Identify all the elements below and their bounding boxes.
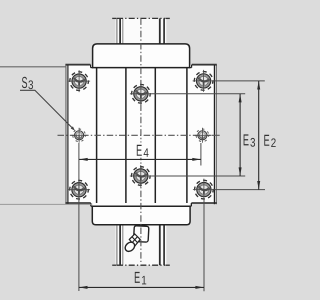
label E1 [135, 272, 146, 285]
label E2 [264, 135, 275, 147]
cap-wing notch top-right [189, 65, 191, 68]
extension line E4/E1 left [78, 143, 80, 291]
grease nipple [123, 226, 149, 254]
lube port hole right [195, 128, 210, 143]
rail break line top [112, 17, 170, 19]
end cap bottom [92, 206, 190, 225]
carriage body plate [66, 65, 216, 207]
cap-wing notch bottom-left [91, 203, 93, 206]
mounting hole bottom-center [130, 165, 152, 187]
horizontal centerline [58, 134, 214, 136]
body internal line 1 [96, 68, 98, 203]
extension line E4 right [200, 143, 202, 166]
lube port hole left S3 [72, 128, 87, 143]
label E3 [244, 134, 255, 146]
dimension E3 [239, 94, 242, 176]
body left edge double line [66, 65, 68, 205]
label E4 halo [136, 143, 151, 158]
rail edge lines bottom-left [117, 225, 123, 266]
margin line top left [0, 66, 67, 68]
label E4 [137, 145, 149, 157]
end cap top [93, 44, 190, 68]
S3 leader line [20, 90, 75, 130]
body right edge double line [214, 65, 216, 205]
body internal line 2 [125, 68, 127, 203]
wing top edge right stub [192, 64, 217, 65]
horizontal centerline right overshoot tick [212, 134, 220, 136]
extension line E2 bottom [215, 189, 265, 191]
vertical centerline [140, 18, 142, 262]
rail break line bottom [112, 264, 170, 266]
cap-wing notch bottom-right [190, 203, 192, 206]
wing bottom edge left stub [65, 202, 90, 204]
wing top edge left stub [65, 64, 90, 65]
mounting hole bottom-left [68, 179, 90, 201]
extension line E2 top [215, 80, 265, 82]
extension line E3 bottom [151, 175, 245, 177]
rail edge lines top-right [160, 18, 164, 44]
mounting hole top-left [68, 70, 90, 92]
rail edge lines top-left [117, 18, 123, 44]
extension line E3 top [152, 93, 246, 95]
mounting hole bottom-right [193, 179, 215, 201]
guide rail bottom section face [116, 225, 167, 266]
dimension E4 [79, 158, 201, 161]
extension line E1 right [203, 199, 205, 292]
margin line bottom left [0, 203, 91, 205]
guide rail top section face [116, 18, 167, 44]
body internal line 4 [186, 68, 188, 203]
body internal line 3 [154, 68, 156, 203]
dimension E2 [257, 81, 260, 190]
rail edge lines bottom-right [160, 225, 164, 266]
label S3 [22, 77, 33, 89]
mounting hole top-center [130, 83, 152, 105]
dimension E1 [79, 286, 204, 289]
mounting hole top-right [193, 70, 215, 92]
cap-wing notch top-left [91, 65, 93, 68]
wing bottom edge right stub [191, 202, 216, 204]
